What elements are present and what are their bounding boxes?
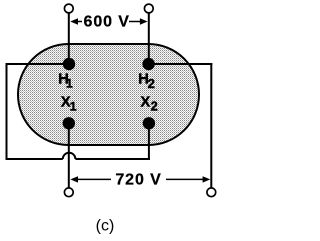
terminal bottom-right: [207, 188, 216, 197]
720 V dimension right arrow: [166, 176, 210, 182]
node X2: [143, 117, 155, 129]
terminal bottom-left: [64, 188, 73, 197]
wire: H1 lead up to top-left terminal: [68, 13, 70, 64]
label H2: [138, 72, 155, 92]
node X1: [63, 117, 75, 129]
wire: X2 drop to bottom conductor: [148, 123, 150, 160]
wire: left vertical conductor: [6, 63, 8, 160]
terminal top-left: [64, 4, 73, 13]
terminal top-right: [144, 4, 153, 13]
wire: H2 to right side conductor: [149, 63, 213, 65]
svg-text:600 V: 600 V: [84, 14, 130, 31]
600 V dimension left arrow: [70, 18, 82, 24]
svg-text:(c): (c): [96, 218, 115, 235]
wire: X1 lead down to bottom-left terminal: [68, 123, 70, 188]
label X2: [141, 95, 158, 114]
wire hop over X1 lead: [63, 153, 76, 159]
wire: H2 lead up to top-right terminal: [148, 13, 150, 64]
svg-text:1: 1: [70, 99, 77, 113]
720 V dimension left arrow: [70, 176, 111, 182]
wire: right vertical conductor: [210, 63, 212, 188]
wire: H1 to left side conductor: [6, 63, 70, 65]
600 V dimension right arrow: [129, 18, 148, 24]
svg-text:X: X: [141, 95, 151, 111]
transformer body (stadium shape): [18, 44, 199, 145]
wire: bottom conductor right segment to X2: [75, 158, 149, 160]
node H1: [63, 58, 75, 70]
wire: bottom conductor left segment: [6, 158, 63, 160]
svg-text:2: 2: [151, 99, 158, 113]
svg-text:720 V: 720 V: [115, 172, 161, 189]
node H2: [142, 58, 154, 70]
svg-text:2: 2: [148, 76, 155, 91]
label H1: [58, 72, 73, 91]
svg-text:1: 1: [66, 77, 73, 91]
label X1: [61, 95, 77, 114]
